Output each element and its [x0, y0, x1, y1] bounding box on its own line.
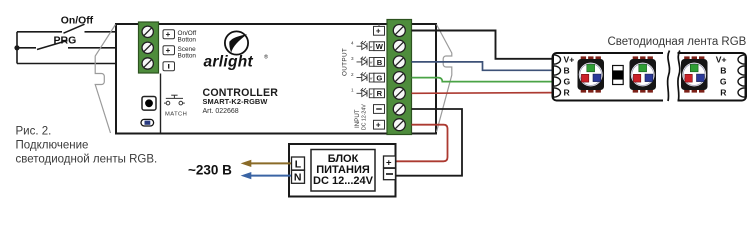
svg-text:On/Off: On/Off [61, 15, 94, 26]
arlight logo circle [225, 31, 248, 54]
strip pad left B [553, 66, 560, 75]
svg-text:R: R [720, 88, 727, 98]
wire plus red controller input to PSU [396, 125, 448, 162]
resistor R1 (SMD on strip) [613, 66, 624, 85]
wire V+ black controller to strip [412, 31, 554, 59]
TB1 screw 2 [142, 42, 153, 53]
PS1 inner label box [311, 150, 375, 192]
svg-text:~230 В: ~230 В [188, 162, 232, 177]
wire G green controller to strip [412, 78, 554, 82]
pin box G [369, 73, 384, 82]
svg-text:Рис. 2.: Рис. 2. [16, 125, 52, 137]
svg-text:N: N [294, 172, 302, 184]
TB2 screw 2 [393, 40, 405, 52]
PS1 terminal L [292, 157, 305, 170]
strip break symbol [663, 51, 680, 103]
input pin box + [374, 120, 385, 129]
svg-text:INPUT: INPUT [354, 109, 361, 128]
svg-text:arlight: arlight [204, 54, 254, 71]
match pushbutton symbol [164, 95, 185, 105]
LED symbol ch3 [357, 57, 368, 65]
wire N blue with arrow (mains) [251, 175, 292, 177]
power supply PS1 case [289, 144, 396, 197]
wire minus black controller input to PSU [396, 109, 462, 176]
svg-text:DC 12-24V: DC 12-24V [362, 104, 368, 130]
svg-text:ПИТАНИЯ: ПИТАНИЯ [316, 164, 370, 176]
TB2 screw 4 [393, 72, 405, 84]
LED indicator D1 [141, 119, 154, 126]
controller U1 case body [116, 24, 436, 134]
LED module D1 [578, 56, 605, 92]
svg-text:L: L [295, 158, 302, 170]
svg-text:W: W [376, 42, 384, 51]
svg-text:G: G [720, 77, 727, 87]
svg-text:Светодиодная лента RGB: Светодиодная лента RGB [608, 36, 747, 48]
LED module D2 [630, 56, 657, 92]
svg-text:G: G [376, 74, 382, 83]
junction dot node A [14, 45, 19, 50]
svg-text:светодиодной ленты RGB.: светодиодной ленты RGB. [16, 154, 158, 166]
TB1 pin label box minus [163, 62, 175, 71]
controller case seam line [160, 74, 162, 133]
svg-text:+: + [386, 158, 392, 169]
strip pad right B [738, 66, 745, 75]
wire B blue controller to strip [412, 62, 554, 70]
svg-text:3: 3 [351, 56, 354, 61]
svg-text:Подключение: Подключение [16, 139, 89, 151]
switch S1 On/Off lever [64, 24, 85, 33]
svg-text:Botton: Botton [178, 53, 197, 60]
pin box W [369, 42, 384, 51]
strip pad left G [553, 77, 560, 86]
svg-text:1: 1 [351, 88, 354, 93]
svg-text:V+: V+ [716, 55, 727, 65]
svg-text:G: G [564, 77, 571, 87]
wire L brown with arrow (mains) [251, 162, 292, 164]
svg-text:+: + [376, 27, 381, 36]
TB2 screw 5 [393, 87, 405, 99]
svg-text:PRG: PRG [54, 35, 77, 47]
LED symbol ch2 [357, 72, 368, 81]
LED symbol ch1 [357, 88, 368, 97]
strip pad right G [738, 77, 745, 86]
svg-text:B: B [564, 66, 570, 76]
svg-text:Botton: Botton [178, 37, 197, 44]
svg-text:B: B [377, 58, 383, 67]
svg-text:R: R [564, 88, 571, 98]
TB1 screw 1 [142, 26, 153, 37]
output pin box + (row1) [378, 24, 380, 27]
svg-text:B: B [720, 66, 726, 76]
switch S2 PRG lever [37, 41, 68, 50]
wire PRG right segment [68, 47, 139, 49]
PS1 terminal minus [384, 168, 396, 179]
wire common bottom segment [17, 63, 139, 65]
strip pad right V+ [738, 55, 745, 64]
terminal block TB2 (right, green) [387, 20, 412, 135]
svg-text:+: + [166, 46, 171, 55]
controller case right end contour [437, 25, 452, 133]
svg-text:Art. 022668: Art. 022668 [203, 108, 239, 115]
pin box B [369, 58, 384, 67]
svg-text:+: + [376, 121, 381, 130]
svg-text:SMART-K2-RGBW: SMART-K2-RGBW [203, 97, 268, 106]
PS1 terminal N [292, 170, 305, 183]
TB2 screw 3 [393, 56, 405, 68]
terminal block TB1 (left, green) [139, 22, 159, 73]
TB2 screw 6 [393, 103, 405, 115]
controller case left end contour [95, 25, 115, 134]
wire PRG left segment [17, 47, 36, 49]
strip pad left V+ [553, 55, 560, 64]
svg-text:V+: V+ [564, 55, 575, 65]
TB1 screw 3 [142, 58, 153, 69]
match button SW3 [142, 97, 156, 111]
TB2 screw 7 [393, 119, 405, 131]
LED symbol ch4 [357, 41, 368, 50]
arlight logo swoosh [229, 34, 247, 52]
svg-text:MATCH: MATCH [165, 111, 187, 117]
TB2 screw 1 [393, 25, 405, 37]
svg-text:2: 2 [351, 72, 354, 77]
strip pad left R [553, 88, 560, 97]
svg-text:4: 4 [351, 41, 354, 46]
wire On/Off left segment [17, 31, 62, 33]
svg-text:®: ® [264, 54, 268, 61]
output channel LED symbols and pin boxes W B G R [357, 41, 368, 97]
svg-text:OUTPUT: OUTPUT [342, 48, 349, 76]
pin box R [369, 89, 384, 98]
wire R red controller to strip [412, 92, 554, 95]
node common bus (left vertical wire) [16, 32, 18, 64]
LED module D3 [681, 56, 708, 92]
TB1 pin label box + (On/Off) [163, 30, 175, 39]
svg-text:+: + [166, 30, 171, 39]
input pin box minus [374, 105, 385, 114]
TB1 pin label box + (Scene) [163, 46, 175, 55]
svg-text:R: R [377, 89, 383, 98]
strip pad right R [738, 88, 745, 97]
svg-text:DC 12...24V: DC 12...24V [313, 175, 374, 187]
wire On/Off right segment [85, 31, 140, 33]
LED strip body [553, 53, 747, 101]
PS1 terminal plus [384, 156, 396, 168]
